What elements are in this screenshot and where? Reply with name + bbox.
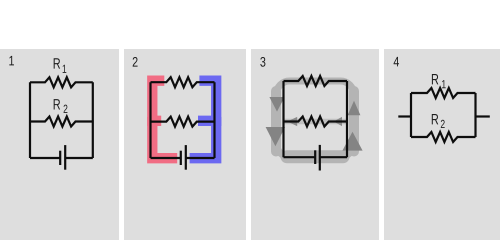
wire: bottom right segment [65, 157, 93, 159]
label R2 (panel 4) [432, 114, 438, 124]
wire: loop left vertical [410, 93, 412, 137]
wire: right vertical [92, 82, 94, 158]
battery V1 positive plate (long) [64, 145, 66, 170]
resistor middle (R2 of panel 3) [284, 117, 348, 127]
wire: left vertical [29, 82, 31, 158]
wire: right vertical [346, 81, 348, 157]
resistor top (R1 of panel 3) [284, 76, 348, 86]
current arrow large up (right, below junction) [342, 132, 362, 151]
wire: bottom right segment [320, 156, 347, 158]
resistor R2 (bottom branch) [411, 132, 476, 142]
resistor R2 (middle wire with zigzag) [30, 117, 93, 127]
resistor R1 (top wire with zigzag) [30, 77, 93, 87]
panel label 1 [9, 56, 14, 65]
panel 3 background [251, 49, 378, 240]
resistor middle (R2 of panel 2) [151, 117, 215, 127]
panel label 2 [133, 57, 138, 67]
label R1 subscript 1 (panel 1) [63, 65, 67, 73]
battery V1 negative plate (short) [59, 151, 61, 165]
battery negative plate (short) [180, 151, 182, 165]
current arrow small down (left, above junction) [269, 97, 284, 112]
wire: bottom left segment [284, 156, 316, 158]
wire: left vertical [149, 82, 151, 158]
blue low-potential band: spine lower + bottom tooth [190, 117, 217, 158]
label R1 (panel 1) [54, 58, 60, 68]
resistor R1 (top branch) [411, 88, 476, 98]
wire: bottom right segment [186, 157, 215, 159]
red high-potential band: spine lower + bottom tooth [152, 117, 177, 158]
gray band thick left side [271, 91, 281, 152]
blue low-potential band: top tooth + spine upper [198, 81, 216, 121]
label R1 (panel 4) [432, 74, 438, 84]
gray band thick right side [349, 91, 359, 152]
wire: left vertical [282, 81, 284, 157]
label R2 subscript 2 (panel 4) [441, 120, 445, 128]
battery negative plate (short) [314, 150, 316, 164]
wire: right lead [476, 115, 490, 117]
panel label 4 [394, 57, 399, 66]
gray band along middle wire [284, 119, 346, 125]
wire: loop right vertical [474, 93, 476, 137]
label R1 subscript 1 (panel 4) [442, 80, 446, 88]
arrowhead right on middle wire [334, 117, 342, 126]
wire: bottom left segment [151, 157, 181, 159]
red high-potential band: top tooth + spine upper [152, 81, 164, 121]
label R2 (panel 1) [54, 99, 60, 109]
resistor top (R1 of panel 2) [151, 77, 215, 87]
panel 1 background [0, 49, 119, 240]
gray band thick bottom [287, 150, 343, 163]
gray current band ring around outer loop [277, 81, 354, 157]
wire: bottom left segment [30, 157, 60, 159]
arrowhead left on middle wire [287, 117, 297, 126]
battery positive plate (long) [185, 145, 187, 170]
wire: left lead [398, 115, 411, 117]
panel label 3 [260, 57, 265, 67]
label R2 subscript 2 (panel 1) [64, 105, 68, 113]
current arrow small up (right, above junction) [348, 101, 361, 116]
wire: right vertical [213, 82, 215, 158]
panel 4 background [384, 49, 500, 240]
battery positive plate (long) [319, 145, 321, 171]
panel 2 background [124, 49, 246, 240]
current arrow large down (left, below junction) [266, 127, 286, 146]
